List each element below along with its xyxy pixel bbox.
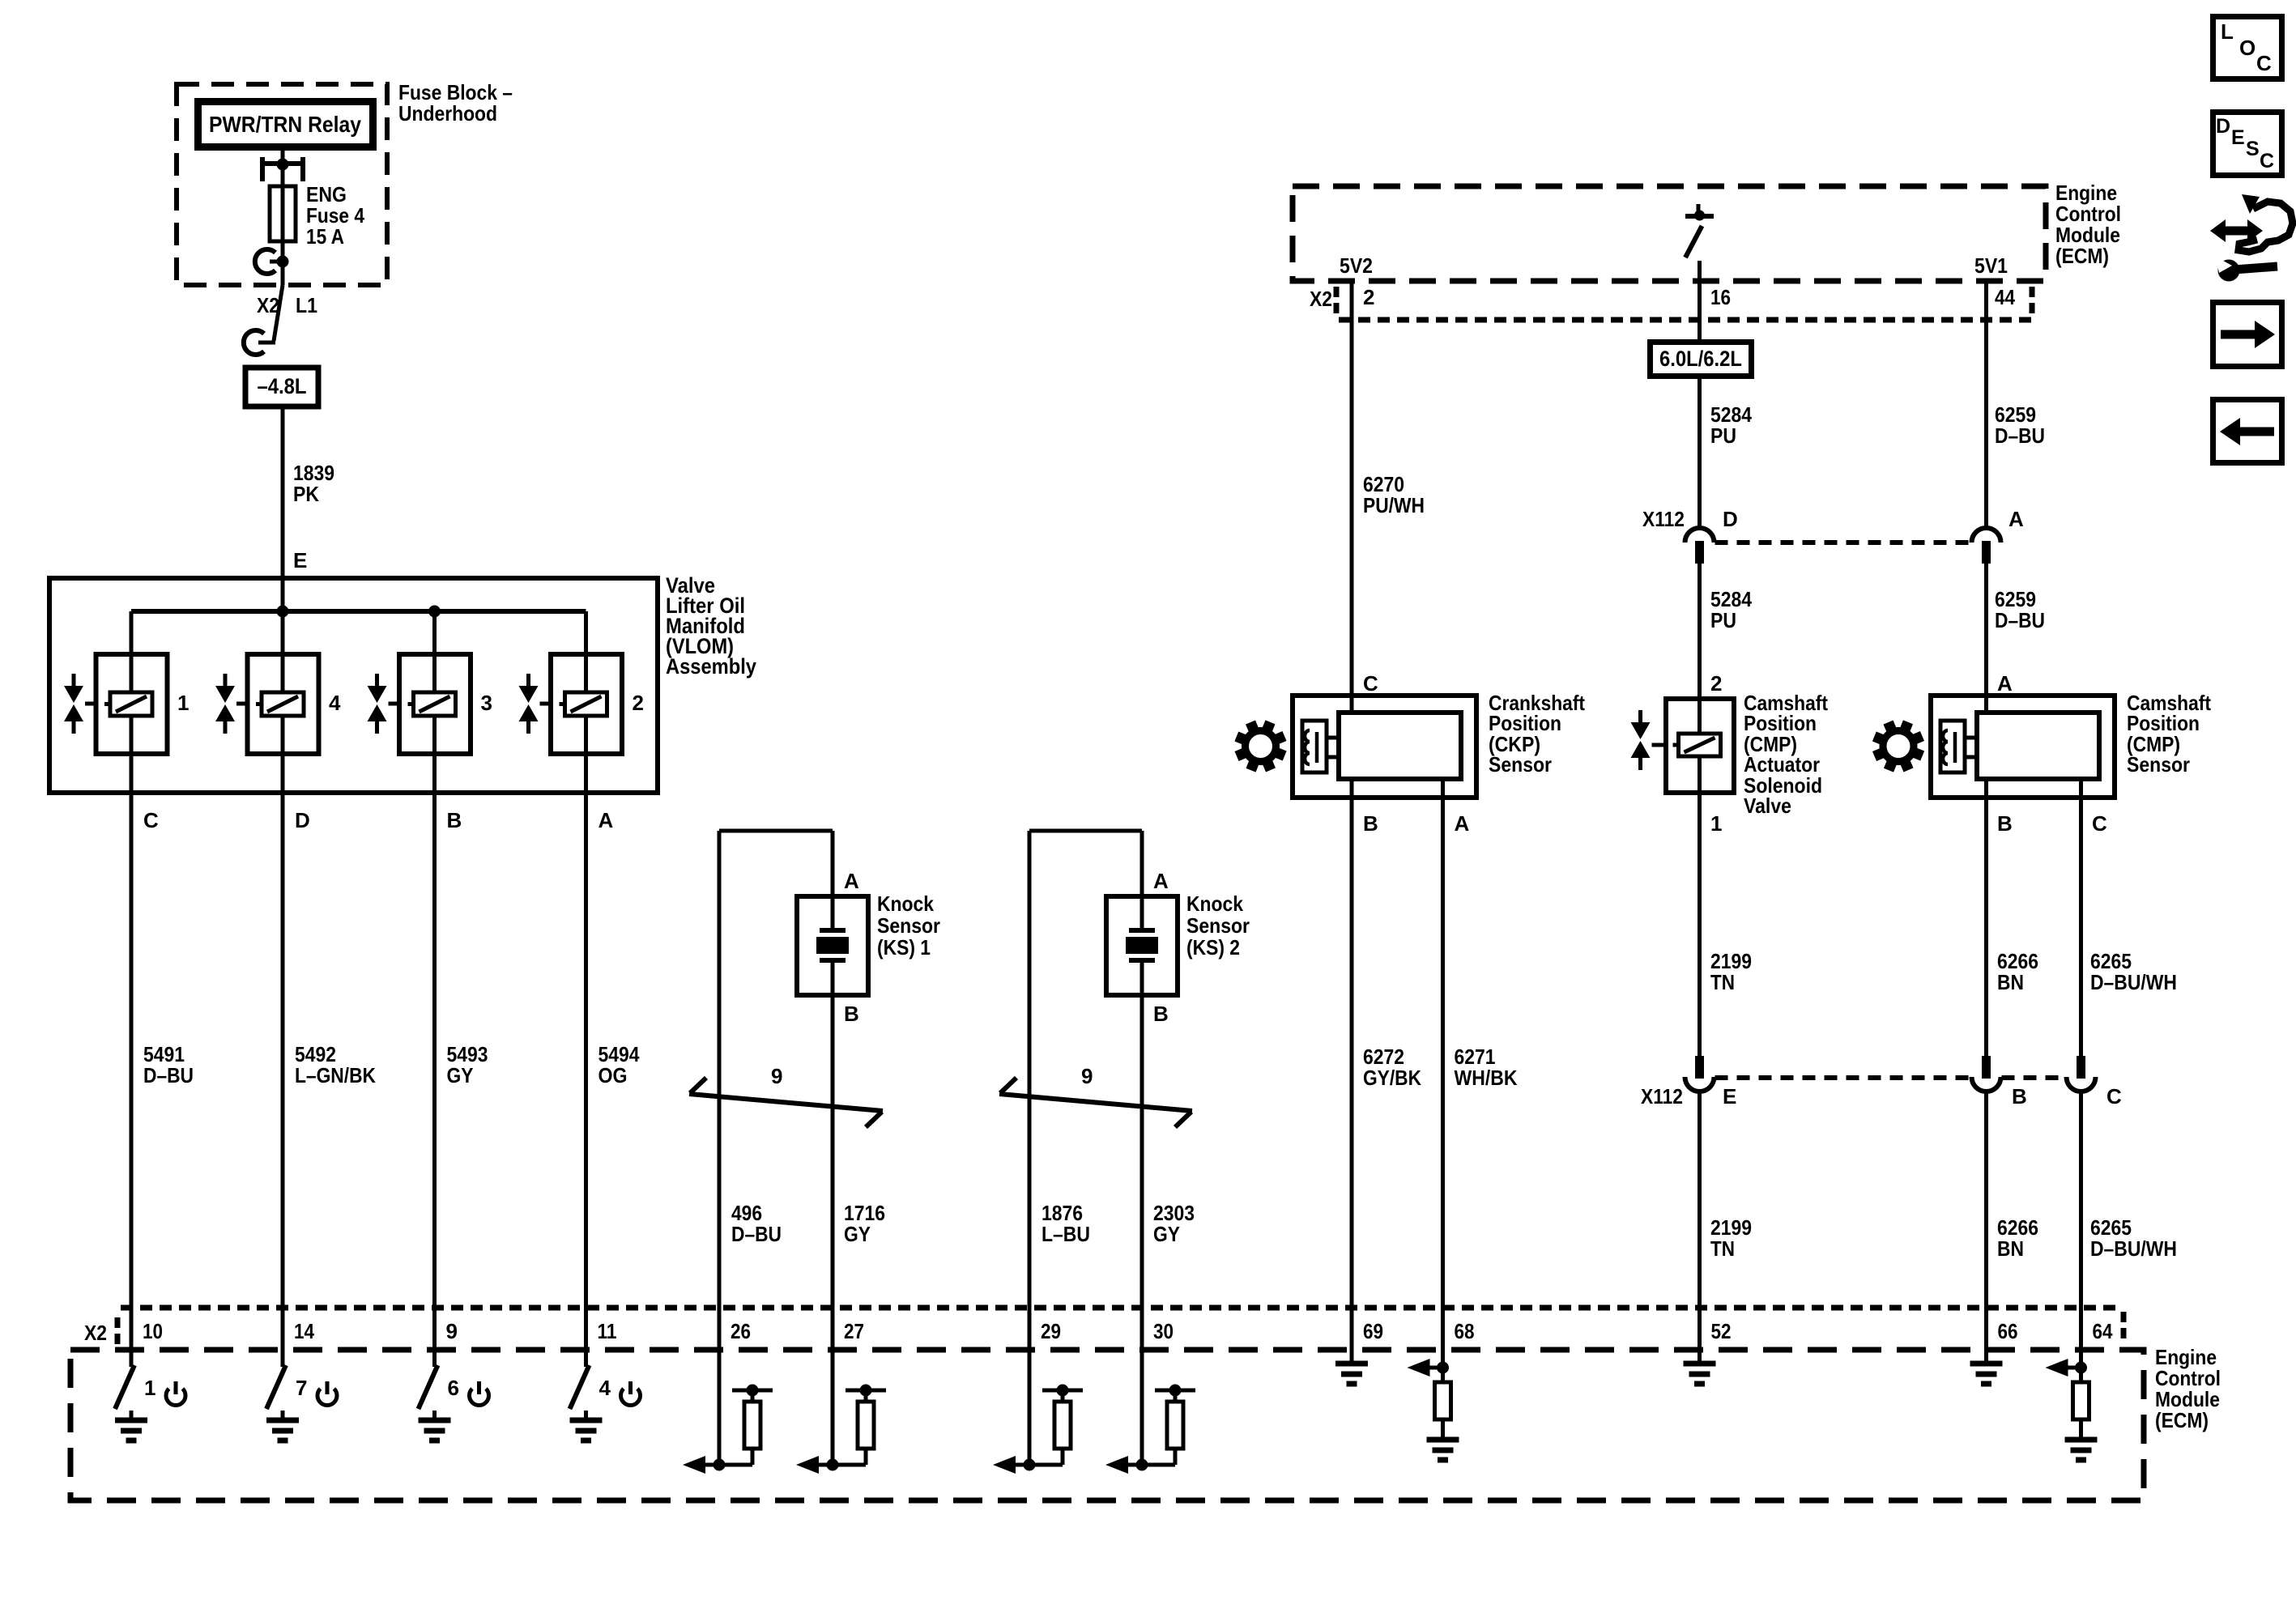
svg-text:A: A bbox=[1997, 671, 2013, 696]
svg-text:B: B bbox=[2012, 1084, 2027, 1108]
label pin A (CMP sensor) bbox=[1997, 671, 2013, 696]
X2 separator left bbox=[115, 1317, 121, 1345]
svg-text:E: E bbox=[1723, 1084, 1736, 1108]
label pin A (Knock Sensor (KS) 1) bbox=[844, 869, 859, 893]
svg-text:B: B bbox=[1363, 811, 1378, 836]
svg-text:(ECM): (ECM) bbox=[2055, 244, 2109, 268]
internal switch at pin 16 bbox=[1685, 204, 1714, 257]
svg-text:1: 1 bbox=[144, 1376, 155, 1400]
svg-text:A: A bbox=[1153, 869, 1169, 893]
label 6271 WH/BK bbox=[1455, 1045, 1518, 1090]
connector X2 pin L1 (slanted) bbox=[244, 285, 283, 355]
svg-text:B: B bbox=[447, 808, 462, 832]
wire 5491 D–BU bbox=[130, 754, 134, 1350]
label Knock Sensor (KS) 2 bbox=[1186, 891, 1250, 960]
label 1716 GY bbox=[844, 1201, 885, 1246]
svg-text:BN: BN bbox=[1997, 970, 2024, 994]
wire Knock Sensor (KS) 1 pin B bbox=[831, 995, 835, 1350]
connector X112 pin C bbox=[2067, 1056, 2096, 1091]
label 5284 PU lower bbox=[1710, 587, 1752, 632]
wire 6265 D-BU/WH upper bbox=[2079, 779, 2083, 1056]
svg-text:44: 44 bbox=[1995, 285, 2015, 309]
terminal in fuse block bbox=[255, 249, 289, 274]
svg-text:7: 7 bbox=[296, 1376, 307, 1400]
icon box DESC bbox=[2213, 113, 2282, 176]
svg-text:15 A: 15 A bbox=[306, 224, 344, 249]
label pin 1 (CMP actuator) bbox=[1710, 811, 1722, 836]
svg-text:X2: X2 bbox=[257, 293, 279, 317]
wire Knock Sensor (KS) 2 pin B bbox=[1140, 995, 1144, 1350]
svg-text:C: C bbox=[2260, 150, 2274, 172]
svg-text:PWR/TRN Relay: PWR/TRN Relay bbox=[209, 112, 361, 137]
svg-text:64: 64 bbox=[2093, 1319, 2113, 1343]
label 1839 PK bbox=[293, 461, 334, 506]
dashed connector line B-C bbox=[2002, 1075, 2066, 1080]
wire 6272 GY/BK bbox=[1350, 779, 1354, 1350]
label Fuse Block - Underhood bbox=[398, 80, 513, 126]
label pin B (CKP) bbox=[1363, 811, 1378, 836]
connector X112 pin A bbox=[1972, 528, 2001, 564]
svg-text:Valve: Valve bbox=[1744, 794, 1791, 818]
label pin E bbox=[1723, 1084, 1736, 1108]
svg-text:L1: L1 bbox=[296, 293, 317, 317]
label pin B (X112) bbox=[2012, 1084, 2027, 1108]
svg-text:5V2: 5V2 bbox=[1340, 253, 1373, 278]
svg-text:29: 29 bbox=[1041, 1319, 1061, 1343]
svg-text:GY: GY bbox=[1153, 1222, 1180, 1246]
svg-text:X2: X2 bbox=[84, 1321, 107, 1345]
label pin E bbox=[293, 548, 307, 572]
svg-text:PU: PU bbox=[1710, 423, 1736, 448]
label pin A (Knock Sensor (KS) 2) bbox=[1153, 869, 1169, 893]
VLOM internal bus bbox=[131, 611, 586, 654]
label pin 2 bbox=[1363, 285, 1374, 309]
label pin C (CKP) bbox=[1363, 671, 1378, 696]
svg-text:D–BU/WH: D–BU/WH bbox=[2090, 970, 2177, 994]
svg-text:L–GN/BK: L–GN/BK bbox=[295, 1063, 376, 1087]
svg-text:PK: PK bbox=[293, 482, 319, 506]
svg-text:PU/WH: PU/WH bbox=[1363, 493, 1425, 517]
connector X112 pin E bbox=[1685, 1056, 1715, 1091]
svg-text:L–BU: L–BU bbox=[1042, 1222, 1090, 1246]
svg-text:4: 4 bbox=[329, 691, 341, 715]
svg-text:52: 52 bbox=[1711, 1319, 1732, 1343]
dashed connector line E-B bbox=[1715, 1075, 1971, 1080]
svg-text:Knock: Knock bbox=[1186, 891, 1243, 916]
label Camshaft Position (CMP) Sensor bbox=[2127, 691, 2211, 777]
wire 16 to 6.0L box bbox=[1698, 261, 1702, 339]
svg-text:Underhood: Underhood bbox=[398, 101, 497, 126]
label 5V1 bbox=[1974, 253, 2008, 278]
wire 6266 BN upper bbox=[1984, 779, 1988, 1056]
svg-text:6: 6 bbox=[448, 1376, 459, 1400]
label pin D bbox=[1723, 507, 1738, 531]
svg-text:9: 9 bbox=[1081, 1064, 1093, 1088]
label Crankshaft Position (CKP) Sensor bbox=[1489, 691, 1585, 777]
svg-text:O: O bbox=[2239, 36, 2256, 60]
label 1876 L–BU bbox=[1042, 1201, 1090, 1246]
junction dot bus/solenoid3 bbox=[428, 606, 441, 618]
label 6259 D-BU upper bbox=[1995, 402, 2045, 448]
label Camshaft Position (CMP) Actuator Solenoid Valve bbox=[1744, 691, 1828, 818]
label 6265 D-BU/WH lower bbox=[2090, 1215, 2177, 1261]
svg-text:(KS) 1: (KS) 1 bbox=[877, 935, 931, 960]
crankshaft position (CKP) sensor bbox=[1293, 696, 1476, 798]
svg-text:PU: PU bbox=[1710, 608, 1736, 632]
label 2199 TN lower bbox=[1710, 1215, 1752, 1261]
relay PWR/TRN Relay bbox=[198, 102, 373, 147]
ECM input with pulldown pin 64 bbox=[2046, 1350, 2098, 1460]
svg-text:A: A bbox=[598, 808, 614, 832]
svg-text:C: C bbox=[2106, 1084, 2122, 1108]
wire 6265 D-BU/WH lower bbox=[2079, 1093, 2083, 1350]
icon box arrow left bbox=[2213, 400, 2282, 463]
svg-text:Assembly: Assembly bbox=[666, 654, 756, 679]
svg-text:L: L bbox=[2221, 19, 2234, 44]
svg-text:2: 2 bbox=[1710, 671, 1722, 696]
ECM knock sensor input network bbox=[1105, 1350, 1195, 1474]
wire 5284 PU upper bbox=[1698, 379, 1702, 528]
svg-text:26: 26 bbox=[731, 1319, 751, 1343]
wire 6259 D-BU bbox=[1984, 281, 1988, 713]
label Engine Control Module (ECM) top bbox=[2055, 181, 2121, 268]
svg-text:X112: X112 bbox=[1641, 1084, 1683, 1108]
svg-text:GY/BK: GY/BK bbox=[1363, 1066, 1421, 1090]
svg-text:Sensor: Sensor bbox=[877, 913, 940, 938]
svg-text:D: D bbox=[295, 808, 310, 832]
label 6266 BN upper bbox=[1997, 949, 2038, 994]
fuse holder bracket bbox=[262, 157, 303, 181]
label Valve Lifter Oil Manifold (VLOM) Assembly bbox=[666, 573, 756, 679]
svg-text:1: 1 bbox=[1710, 811, 1722, 836]
label 5284 PU upper bbox=[1710, 402, 1752, 448]
label 6270 PU/WH bbox=[1363, 472, 1425, 517]
camshaft position (CMP) sensor bbox=[1931, 696, 2115, 798]
label Engine Control Module (ECM) bottom bbox=[2155, 1345, 2221, 1432]
svg-text:5V1: 5V1 bbox=[1974, 253, 2008, 278]
ECM top dashed box bbox=[1293, 186, 2046, 281]
label pin A (X112) bbox=[2008, 507, 2024, 531]
label 6259 D-BU lower bbox=[1995, 587, 2045, 632]
label pin 16 bbox=[1710, 285, 1731, 309]
svg-text:S: S bbox=[2246, 138, 2260, 160]
gear icon (CKP) bbox=[1234, 720, 1286, 772]
X2 connector dotted line (bottom) bbox=[121, 1305, 2115, 1311]
ECM knock sensor input network bbox=[683, 1350, 773, 1474]
svg-text:B: B bbox=[844, 1002, 859, 1026]
VLOM pin letters C D B A bbox=[143, 808, 614, 832]
wire 6271 WH/BK bbox=[1441, 779, 1445, 1350]
wire 5494 OG bbox=[584, 754, 588, 1350]
ECM knock sensor input network bbox=[993, 1350, 1083, 1474]
svg-text:D: D bbox=[2216, 115, 2230, 138]
ECM ground pin 66 bbox=[1970, 1350, 2003, 1384]
svg-text:10: 10 bbox=[143, 1319, 163, 1343]
twisted pair symbol 9 (Knock Sensor (KS) 1) bbox=[689, 1064, 883, 1127]
solenoid valve 2 bbox=[519, 654, 644, 754]
svg-text:C: C bbox=[2092, 811, 2107, 836]
ECM ground pin 52 bbox=[1684, 1350, 1716, 1384]
wire 5493 GY bbox=[432, 754, 437, 1350]
ECM knock sensor input network bbox=[796, 1350, 886, 1474]
svg-text:(ECM): (ECM) bbox=[2155, 1408, 2209, 1432]
wire 6266 BN lower bbox=[1984, 1093, 1988, 1350]
variant box 6.0L/6.2L bbox=[1651, 343, 1752, 377]
svg-text:B: B bbox=[1997, 811, 2013, 836]
svg-text:BN: BN bbox=[1997, 1236, 2024, 1261]
svg-text:2: 2 bbox=[633, 691, 644, 715]
label pin 44 bbox=[1995, 285, 2015, 309]
label X2 (top) bbox=[1310, 287, 1332, 311]
ECM low-side driver pin 7 bbox=[266, 1350, 337, 1440]
svg-text:C: C bbox=[2256, 51, 2272, 75]
solenoid valve 1 bbox=[64, 654, 189, 754]
svg-text:B: B bbox=[1153, 1002, 1169, 1026]
ECM ground pin 69 bbox=[1335, 1350, 1368, 1384]
svg-text:14: 14 bbox=[294, 1319, 314, 1343]
connector X112 pin B bbox=[1972, 1056, 2001, 1091]
label X112 (row E) bbox=[1641, 1084, 1683, 1108]
wire loop to Knock Sensor (KS) 1 pin A bbox=[719, 831, 833, 1350]
svg-text:4: 4 bbox=[599, 1376, 611, 1400]
label pin A (CKP) bbox=[1455, 811, 1470, 836]
svg-text:Sensor: Sensor bbox=[1186, 913, 1250, 938]
label pin B (CMP sensor) bbox=[1997, 811, 2013, 836]
svg-text:D–BU: D–BU bbox=[1995, 608, 2045, 632]
svg-text:27: 27 bbox=[844, 1319, 864, 1343]
feed wire into VLOM bbox=[281, 578, 285, 611]
label 2199 TN upper bbox=[1710, 949, 1752, 994]
label Knock Sensor (KS) 1 bbox=[877, 891, 940, 960]
svg-text:C: C bbox=[143, 808, 159, 832]
svg-text:A: A bbox=[2008, 507, 2024, 531]
label 5V2 bbox=[1340, 253, 1373, 278]
junction dot bus/solenoid4 bbox=[277, 606, 289, 618]
label pin B (Knock Sensor (KS) 2) bbox=[1153, 1002, 1169, 1026]
svg-text:D–BU: D–BU bbox=[143, 1063, 194, 1087]
svg-text:30: 30 bbox=[1153, 1319, 1174, 1343]
ECM low-side driver pin 1 bbox=[115, 1350, 185, 1440]
svg-text:GY: GY bbox=[844, 1222, 871, 1246]
label ENG Fuse 4 15 A bbox=[306, 182, 364, 249]
gear icon (CMP) bbox=[1872, 720, 1924, 772]
svg-text:16: 16 bbox=[1710, 285, 1731, 309]
label 5493 GY bbox=[447, 1042, 488, 1087]
svg-text:(KS) 2: (KS) 2 bbox=[1186, 935, 1240, 960]
svg-text:OG: OG bbox=[598, 1063, 628, 1087]
svg-text:D–BU/WH: D–BU/WH bbox=[2090, 1236, 2177, 1261]
twisted pair symbol 9 (Knock Sensor (KS) 2) bbox=[999, 1064, 1192, 1127]
svg-text:Sensor: Sensor bbox=[1489, 752, 1552, 777]
wire relay to fuse bbox=[281, 149, 285, 186]
icon box LOC bbox=[2213, 17, 2282, 79]
label 2303 GY bbox=[1153, 1201, 1195, 1246]
svg-text:9: 9 bbox=[771, 1064, 782, 1088]
label 5491 D–BU bbox=[143, 1042, 194, 1087]
svg-text:Sensor: Sensor bbox=[2127, 752, 2190, 777]
fuse block - underhood (dashed box) bbox=[177, 84, 387, 285]
svg-text:66: 66 bbox=[1998, 1319, 2018, 1343]
ECM low-side driver pin 4 bbox=[570, 1350, 641, 1440]
label 6272 GY/BK bbox=[1363, 1045, 1421, 1090]
label 6266 BN lower bbox=[1997, 1215, 2038, 1261]
pin numbers bottom row bbox=[143, 1319, 2113, 1343]
label 5492 L–GN/BK bbox=[295, 1042, 376, 1087]
svg-text:3: 3 bbox=[481, 691, 492, 715]
svg-text:C: C bbox=[1363, 671, 1378, 696]
svg-text:1: 1 bbox=[177, 691, 189, 715]
svg-text:9: 9 bbox=[446, 1319, 458, 1343]
knock sensor Knock Sensor (KS) 1 bbox=[797, 896, 868, 995]
icon wrench/diagnostic bbox=[2210, 194, 2293, 282]
fuse ENG Fuse 4 15A bbox=[270, 186, 296, 241]
svg-text:TN: TN bbox=[1710, 1236, 1735, 1261]
label X2 / L1 bbox=[257, 293, 317, 317]
wire 5284 PU lower bbox=[1698, 564, 1702, 699]
knock sensor Knock Sensor (KS) 2 bbox=[1106, 896, 1178, 995]
svg-text:E: E bbox=[293, 548, 307, 572]
svg-text:Knock: Knock bbox=[877, 891, 934, 916]
wire 2199 TN lower bbox=[1698, 1093, 1702, 1350]
svg-text:–4.8L: –4.8L bbox=[258, 374, 307, 398]
wire 1839 PK bbox=[281, 406, 285, 578]
label pin 2 (CMP actuator) bbox=[1710, 671, 1722, 696]
svg-text:E: E bbox=[2231, 126, 2245, 149]
label pin B (Knock Sensor (KS) 1) bbox=[844, 1002, 859, 1026]
dashed connector line D-A bbox=[1715, 540, 1971, 545]
VLOM assembly box bbox=[49, 578, 658, 793]
X2 separator right bbox=[2121, 1312, 2127, 1344]
wire fuse to terminal bbox=[281, 241, 285, 262]
label 6265 D-BU/WH upper bbox=[2090, 949, 2177, 994]
label 5494 OG bbox=[598, 1042, 640, 1087]
svg-text:GY: GY bbox=[447, 1063, 474, 1087]
label pin C (CMP sensor) bbox=[2092, 811, 2107, 836]
svg-text:X112: X112 bbox=[1642, 507, 1685, 531]
ECM low-side driver pin 6 bbox=[419, 1350, 489, 1440]
wire loop to Knock Sensor (KS) 2 pin A bbox=[1029, 831, 1142, 1350]
svg-text:A: A bbox=[844, 869, 859, 893]
variant box -4.8L bbox=[245, 368, 318, 406]
label X112 (row D) bbox=[1642, 507, 1685, 531]
svg-text:2: 2 bbox=[1363, 285, 1374, 309]
svg-text:11: 11 bbox=[598, 1319, 617, 1343]
svg-text:68: 68 bbox=[1455, 1319, 1475, 1343]
wire 5492 L–GN/BK bbox=[281, 754, 285, 1350]
svg-text:D: D bbox=[1723, 507, 1738, 531]
svg-text:A: A bbox=[1455, 811, 1470, 836]
svg-text:6.0L/6.2L: 6.0L/6.2L bbox=[1659, 347, 1742, 371]
svg-text:D–BU: D–BU bbox=[731, 1222, 782, 1246]
X2 connector row (top) bbox=[1336, 287, 2038, 320]
svg-text:X2: X2 bbox=[1310, 287, 1332, 311]
camshaft position (CMP) actuator solenoid valve bbox=[1666, 699, 1734, 793]
svg-text:D–BU: D–BU bbox=[1995, 423, 2045, 448]
label pin C (X112) bbox=[2106, 1084, 2122, 1108]
wire 2199 TN upper bbox=[1698, 793, 1702, 1056]
wire 6270 PU/WH bbox=[1350, 281, 1354, 713]
valve symbol (CMP actuator) bbox=[1631, 710, 1667, 770]
connector X112 pin D bbox=[1685, 528, 1715, 564]
svg-text:TN: TN bbox=[1710, 970, 1735, 994]
wire to connector X2-L1 bbox=[281, 262, 285, 285]
label X2 (bottom) bbox=[84, 1321, 107, 1345]
solenoid valve 4 bbox=[215, 654, 341, 754]
label 496 D–BU bbox=[731, 1201, 782, 1246]
icon box arrow right bbox=[2213, 303, 2282, 367]
solenoid valve 3 bbox=[368, 654, 492, 754]
ECM bottom dashed box bbox=[70, 1350, 2144, 1500]
svg-text:69: 69 bbox=[1363, 1319, 1383, 1343]
ECM input with pulldown pin 68 bbox=[1408, 1350, 1459, 1460]
svg-text:WH/BK: WH/BK bbox=[1455, 1066, 1518, 1090]
